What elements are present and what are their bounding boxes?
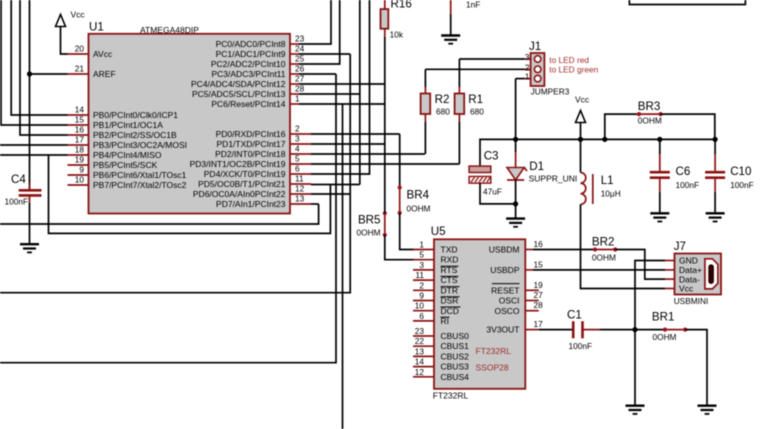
svg-text:PD7/AIn1/PCInt23: PD7/AIn1/PCInt23 — [216, 199, 286, 209]
svg-text:OSCI: OSCI — [499, 296, 520, 306]
svg-text:100nF: 100nF — [5, 197, 29, 207]
svg-text:10: 10 — [75, 175, 85, 185]
svg-text:22: 22 — [415, 336, 425, 346]
svg-text:6: 6 — [419, 311, 424, 321]
svg-text:ATMEGA48DIP: ATMEGA48DIP — [140, 25, 199, 35]
svg-text:3: 3 — [419, 260, 424, 270]
svg-text:L1: L1 — [601, 174, 614, 187]
svg-text:16: 16 — [75, 125, 85, 135]
svg-text:15: 15 — [534, 259, 544, 269]
svg-text:12: 12 — [295, 184, 305, 194]
svg-text:PC4/ADC4/SDA/PCInt12: PC4/ADC4/SDA/PCInt12 — [191, 79, 286, 89]
svg-text:1: 1 — [295, 94, 300, 104]
svg-text:27: 27 — [295, 74, 305, 84]
svg-text:USBDP: USBDP — [490, 265, 520, 275]
svg-text:SSOP28: SSOP28 — [476, 363, 509, 373]
svg-text:USBMINI: USBMINI — [674, 296, 709, 306]
svg-text:21: 21 — [75, 64, 85, 74]
svg-text:14: 14 — [415, 357, 425, 367]
svg-text:PD4/XCK/T0/PCInt19: PD4/XCK/T0/PCInt19 — [204, 169, 286, 179]
svg-text:RESET: RESET — [491, 285, 519, 295]
svg-text:JUMPER3: JUMPER3 — [531, 86, 570, 96]
svg-text:6: 6 — [295, 164, 300, 174]
svg-text:PC2/ADC2/PCInt10: PC2/ADC2/PCInt10 — [211, 59, 286, 69]
svg-text:5: 5 — [419, 250, 424, 260]
svg-text:0OHM: 0OHM — [407, 203, 431, 213]
svg-text:PC0/ADC0/PCInt8: PC0/ADC0/PCInt8 — [216, 39, 286, 49]
svg-text:J1: J1 — [529, 40, 541, 53]
svg-text:100nF: 100nF — [676, 180, 700, 190]
svg-text:PD3/INT1/OC2B/PCInt19: PD3/INT1/OC2B/PCInt19 — [190, 159, 286, 169]
svg-text:680: 680 — [436, 107, 450, 117]
svg-text:FT232RL: FT232RL — [476, 346, 512, 356]
svg-text:23: 23 — [415, 326, 425, 336]
svg-text:0OHM: 0OHM — [592, 253, 616, 263]
svg-text:R1: R1 — [468, 93, 483, 106]
svg-text:U5: U5 — [431, 225, 446, 238]
svg-text:C4: C4 — [11, 173, 26, 186]
svg-text:20: 20 — [75, 44, 85, 54]
svg-text:R2: R2 — [435, 93, 450, 106]
svg-text:1: 1 — [525, 72, 530, 82]
svg-text:CBUS4: CBUS4 — [441, 372, 470, 382]
svg-text:10: 10 — [415, 301, 425, 311]
svg-text:10µH: 10µH — [601, 189, 621, 199]
svg-text:PC1/ADC1/PCInt9: PC1/ADC1/PCInt9 — [216, 49, 286, 59]
svg-text:PB0/PCInt0/Clk0/ICP1: PB0/PCInt0/Clk0/ICP1 — [93, 110, 178, 120]
svg-text:11: 11 — [415, 270, 424, 280]
svg-text:AVcc: AVcc — [93, 49, 113, 59]
svg-text:4: 4 — [295, 144, 300, 154]
svg-text:3: 3 — [295, 134, 300, 144]
svg-text:9: 9 — [79, 165, 84, 175]
svg-text:100nF: 100nF — [730, 180, 754, 190]
svg-text:25: 25 — [295, 54, 305, 64]
svg-text:24: 24 — [295, 44, 305, 54]
svg-text:TXD: TXD — [441, 245, 458, 255]
svg-text:to LED green: to LED green — [549, 65, 598, 75]
svg-text:26: 26 — [295, 64, 305, 74]
svg-text:AREF: AREF — [93, 69, 116, 79]
svg-text:BR5: BR5 — [358, 214, 381, 227]
svg-text:PB7/PCInt7/Xtal2/TOsc2: PB7/PCInt7/Xtal2/TOsc2 — [93, 180, 187, 190]
svg-text:FT232RL: FT232RL — [433, 390, 469, 400]
svg-text:CBUS0: CBUS0 — [441, 331, 470, 341]
svg-text:CBUS2: CBUS2 — [441, 351, 470, 361]
svg-text:3: 3 — [525, 52, 530, 62]
svg-text:R16: R16 — [391, 0, 412, 11]
svg-text:CBUS3: CBUS3 — [441, 362, 470, 372]
svg-text:14: 14 — [75, 105, 85, 115]
svg-text:17: 17 — [75, 135, 85, 145]
svg-text:1: 1 — [419, 240, 424, 250]
svg-text:PB6/PCInt6/Xtal1/TOsc1: PB6/PCInt6/Xtal1/TOsc1 — [93, 170, 187, 180]
svg-text:C3: C3 — [484, 150, 499, 163]
svg-text:BR4: BR4 — [407, 189, 430, 202]
svg-text:PD1/TXD/PCInt17: PD1/TXD/PCInt17 — [217, 139, 286, 149]
svg-text:27: 27 — [534, 290, 544, 300]
svg-text:28: 28 — [534, 300, 544, 310]
svg-text:0OHM: 0OHM — [638, 115, 662, 125]
svg-text:PD2/INT0/PCInt18: PD2/INT0/PCInt18 — [215, 149, 286, 159]
svg-text:9: 9 — [419, 291, 424, 301]
svg-text:11: 11 — [295, 174, 304, 184]
svg-text:PB2/PCInt2/SS/OC1B: PB2/PCInt2/SS/OC1B — [93, 130, 177, 140]
svg-text:2: 2 — [419, 280, 424, 290]
svg-text:PD0/RXD/PCInt16: PD0/RXD/PCInt16 — [216, 129, 286, 139]
svg-text:Vcc: Vcc — [71, 10, 86, 20]
svg-text:18: 18 — [75, 145, 85, 155]
svg-text:5: 5 — [295, 154, 300, 164]
svg-text:PB1/PCInt1/OC1A: PB1/PCInt1/OC1A — [93, 120, 163, 130]
svg-text:U1: U1 — [89, 21, 104, 34]
svg-text:13: 13 — [295, 194, 305, 204]
svg-text:C10: C10 — [730, 165, 751, 178]
svg-text:2: 2 — [295, 124, 300, 134]
svg-text:OSCO: OSCO — [494, 306, 519, 316]
svg-text:28: 28 — [295, 84, 305, 94]
svg-text:16: 16 — [534, 239, 544, 249]
svg-text:PD5/OC0B/T1/PCInt21: PD5/OC0B/T1/PCInt21 — [198, 179, 286, 189]
svg-text:10k: 10k — [390, 30, 404, 40]
svg-text:12: 12 — [415, 367, 425, 377]
svg-text:3V3OUT: 3V3OUT — [486, 325, 519, 335]
svg-text:13: 13 — [415, 346, 425, 356]
svg-text:D1: D1 — [529, 160, 544, 173]
svg-text:100nF: 100nF — [569, 341, 593, 351]
svg-text:to LED red: to LED red — [549, 55, 589, 65]
svg-text:CBUS1: CBUS1 — [441, 341, 470, 351]
svg-text:17: 17 — [534, 319, 544, 329]
svg-text:PD6/OC0A/AIn0PCInt22: PD6/OC0A/AIn0PCInt22 — [193, 189, 286, 199]
svg-text:C1: C1 — [567, 309, 582, 322]
svg-text:RXD: RXD — [441, 255, 459, 265]
svg-text:0OHM: 0OHM — [357, 227, 381, 237]
svg-text:C6: C6 — [676, 165, 691, 178]
svg-text:15: 15 — [75, 115, 85, 125]
svg-text:BR2: BR2 — [592, 236, 615, 249]
svg-text:1nF: 1nF — [466, 0, 480, 10]
svg-text:BR1: BR1 — [652, 311, 675, 324]
svg-text:Vcc: Vcc — [679, 284, 694, 294]
svg-text:PB4/PCInt4/MISO: PB4/PCInt4/MISO — [93, 150, 162, 160]
svg-text:J7: J7 — [674, 240, 686, 253]
svg-text:23: 23 — [295, 34, 305, 44]
svg-text:47uF: 47uF — [483, 187, 502, 197]
svg-text:BR3: BR3 — [638, 100, 661, 113]
svg-text:0OHM: 0OHM — [653, 332, 677, 342]
svg-text:PB3/PCInt3/OC2A/MOSI: PB3/PCInt3/OC2A/MOSI — [93, 140, 187, 150]
svg-text:USBDM: USBDM — [489, 245, 520, 255]
svg-text:19: 19 — [75, 155, 85, 165]
svg-text:SUPPR_UNI: SUPPR_UNI — [529, 174, 578, 184]
svg-text:PC6/Reset/PCInt14: PC6/Reset/PCInt14 — [211, 99, 285, 109]
svg-text:PC3/ADC3/PCInt11: PC3/ADC3/PCInt11 — [211, 69, 285, 79]
svg-text:PC5/ADC5/SCL/PCInt13: PC5/ADC5/SCL/PCInt13 — [192, 89, 286, 99]
svg-text:Vcc: Vcc — [575, 95, 590, 105]
svg-text:PB5/PCInt5/SCK: PB5/PCInt5/SCK — [93, 160, 158, 170]
svg-text:680: 680 — [470, 107, 484, 117]
svg-text:19: 19 — [534, 280, 544, 290]
